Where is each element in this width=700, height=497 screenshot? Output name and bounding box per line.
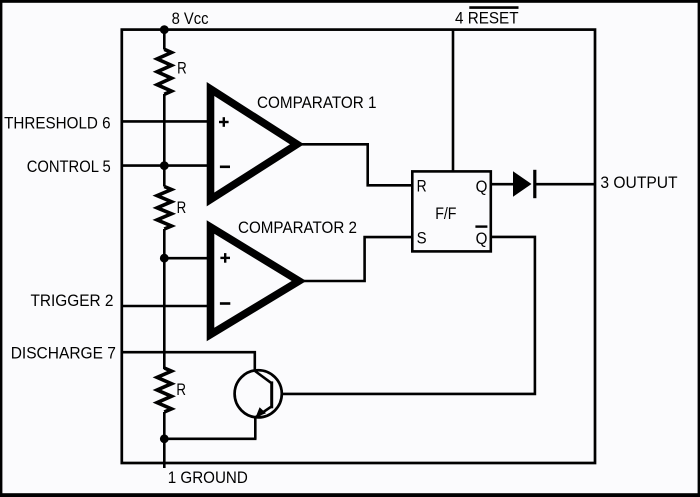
diode D1 cathode bar xyxy=(533,170,536,198)
wire: transistor emitter lead xyxy=(254,414,257,439)
minus sign comparator 2 xyxy=(220,302,230,305)
flip-flop U1 box F/F xyxy=(412,171,491,251)
wire: diode to output pin xyxy=(535,183,595,186)
wire: R2 to R3 through comparator-2 node xyxy=(163,229,166,369)
IC boundary rectangle xyxy=(122,30,595,463)
transistor Q1 body xyxy=(235,370,282,417)
resistor R2 xyxy=(157,187,171,230)
node ground junction dot xyxy=(160,434,169,443)
wire: emitter to ground node xyxy=(164,437,256,440)
resistor R3 xyxy=(157,368,171,412)
transistor Q1 collector diagonal xyxy=(255,371,271,383)
resistor R1 xyxy=(157,49,171,94)
op-amp comparator 1 xyxy=(211,89,298,200)
node control junction dot xyxy=(160,161,169,170)
svg-text:S: S xyxy=(417,228,427,247)
wire: Q-bar feedback to transistor base xyxy=(273,237,535,394)
wire: CONTROL input line xyxy=(122,164,212,167)
minus sign comparator 1 xyxy=(220,166,230,169)
wire: THRESHOLD input line xyxy=(122,120,212,123)
svg-text:R: R xyxy=(177,198,187,217)
transistor Q1 emitter arrow xyxy=(256,407,266,417)
wire: R3 to ground pin lead xyxy=(163,412,166,468)
wire: Vcc node to R1 xyxy=(163,30,166,50)
svg-text:Q: Q xyxy=(476,177,488,196)
svg-text:COMPARATOR 2: COMPARATOR 2 xyxy=(238,218,357,237)
svg-text:TRIGGER 2: TRIGGER 2 xyxy=(31,291,114,310)
overline of Q-bar xyxy=(475,225,487,227)
svg-text:R: R xyxy=(417,177,427,196)
wire: comparator 1 output to F/F R input xyxy=(298,144,412,185)
svg-text:THRESHOLD 6: THRESHOLD 6 xyxy=(4,113,111,132)
wire: RESET lead into F/F xyxy=(452,30,455,171)
wire: comparator 2 output to F/F S input xyxy=(300,237,412,281)
node comparator-2 plus junction dot xyxy=(160,254,169,263)
svg-text:F/F: F/F xyxy=(435,204,456,223)
wire: R1 to R2 through control node xyxy=(163,94,166,187)
transistor Q1 emitter diagonal xyxy=(256,407,271,417)
node Vcc junction dot xyxy=(160,25,169,34)
svg-text:CONTROL 5: CONTROL 5 xyxy=(27,157,111,176)
svg-text:R: R xyxy=(176,380,186,399)
svg-text:8 Vcc: 8 Vcc xyxy=(172,9,209,28)
transistor Q1 base bar xyxy=(270,381,273,408)
op-amp comparator 2 xyxy=(211,227,300,335)
svg-text:3 OUTPUT: 3 OUTPUT xyxy=(600,173,677,192)
svg-text:COMPARATOR 1: COMPARATOR 1 xyxy=(257,93,377,112)
plus sign comparator 1 xyxy=(219,117,229,127)
wire: Q output to diode xyxy=(491,183,513,186)
svg-text:DISCHARGE 7: DISCHARGE 7 xyxy=(11,343,116,362)
overline of RESET xyxy=(469,6,518,9)
plus sign comparator 2 xyxy=(220,253,230,263)
wire: DISCHARGE line xyxy=(122,352,255,372)
svg-text:Q: Q xyxy=(476,229,488,248)
wire: TRIGGER input line xyxy=(122,305,212,308)
diode D1 triangle xyxy=(513,171,532,197)
svg-text:R: R xyxy=(177,58,187,77)
wire: comparator 2 plus input from divider xyxy=(164,257,212,260)
svg-text:1 GROUND: 1 GROUND xyxy=(168,468,248,487)
svg-text:4 RESET: 4 RESET xyxy=(455,8,519,27)
